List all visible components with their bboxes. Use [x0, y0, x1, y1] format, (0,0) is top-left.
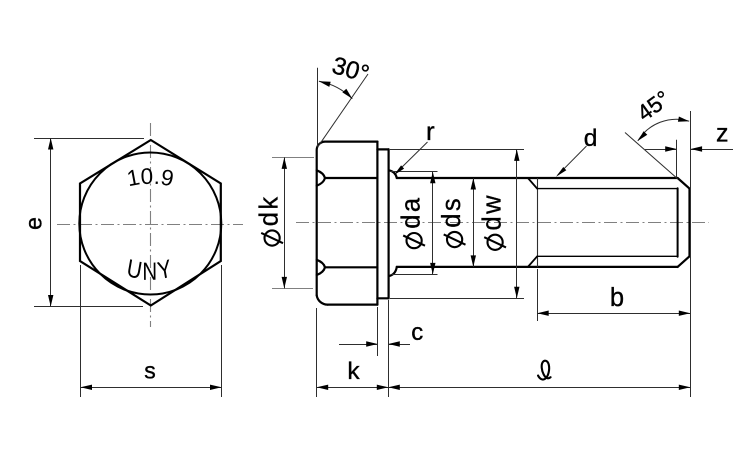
svg-text:e: e — [21, 217, 47, 230]
svg-text:d: d — [584, 125, 598, 152]
svg-text:b: b — [610, 284, 624, 312]
svg-text:s: s — [144, 358, 156, 384]
svg-text:z: z — [716, 120, 729, 148]
svg-text:10.9: 10.9 — [125, 164, 176, 192]
svg-text:dk: dk — [256, 194, 284, 226]
svg-text:dw: dw — [479, 193, 507, 231]
svg-text:c: c — [411, 319, 423, 346]
svg-text:r: r — [426, 116, 435, 146]
svg-text:ds: ds — [438, 196, 466, 228]
svg-text:da: da — [398, 195, 426, 228]
svg-text:UNY: UNY — [125, 253, 176, 285]
svg-text:k: k — [347, 358, 360, 385]
